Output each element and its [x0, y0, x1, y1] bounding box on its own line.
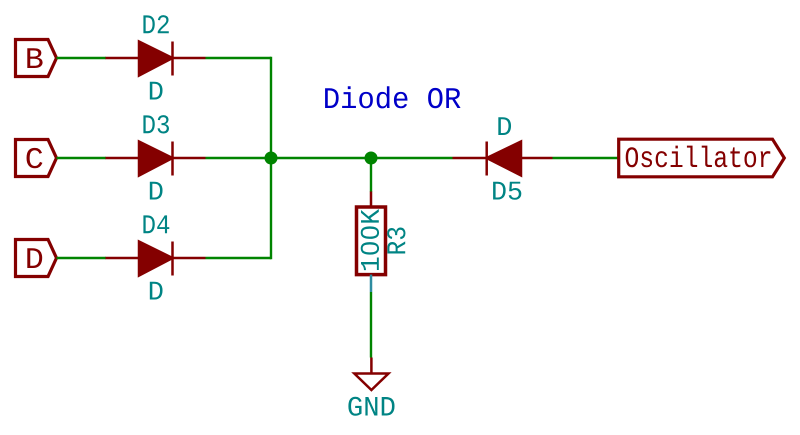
wire D row left: [57, 257, 107, 259]
wire B row right: [206, 57, 272, 59]
wire to oscillator: [553, 157, 620, 159]
resistor R3 bottom pin: [370, 275, 373, 292]
wire main horizontal: [271, 157, 453, 159]
resistor R3 body: [357, 207, 386, 275]
wire C row right: [206, 157, 272, 159]
value D of D5: [498, 117, 511, 135]
label C text: [27, 148, 43, 168]
value D of D4: [150, 282, 163, 300]
wire junction to resistor: [370, 158, 372, 192]
power symbol GND: [354, 358, 388, 391]
wire B row left: [57, 57, 107, 59]
diode D4: [106, 242, 206, 276]
label D5: [493, 182, 521, 200]
wire vertical bus: [270, 57, 272, 259]
global label C: [16, 140, 57, 177]
value D of D2: [150, 82, 163, 100]
note Diode OR: [325, 86, 460, 108]
diode D3: [106, 142, 206, 176]
diode D5: [453, 142, 553, 176]
junction at bus and C row: [265, 152, 278, 165]
label D text: [27, 248, 42, 268]
global label B: [16, 40, 57, 77]
label D2: [143, 15, 168, 33]
wire resistor to GND: [370, 292, 372, 358]
global label D: [16, 240, 57, 277]
label D4: [143, 215, 169, 233]
label R3: [387, 228, 405, 254]
value D of D3: [150, 182, 163, 200]
resistor R3 top pin: [370, 192, 373, 208]
wire C row left: [57, 157, 107, 159]
global label Oscillator: [619, 139, 785, 177]
wire D row right: [206, 257, 272, 259]
label D3: [143, 115, 169, 133]
value 100K of R3: [361, 209, 379, 270]
label GND text: [348, 397, 394, 416]
label Oscillator text: [626, 146, 771, 168]
junction at resistor tap: [365, 152, 378, 165]
diode D2: [106, 42, 206, 76]
label B text: [27, 48, 42, 68]
